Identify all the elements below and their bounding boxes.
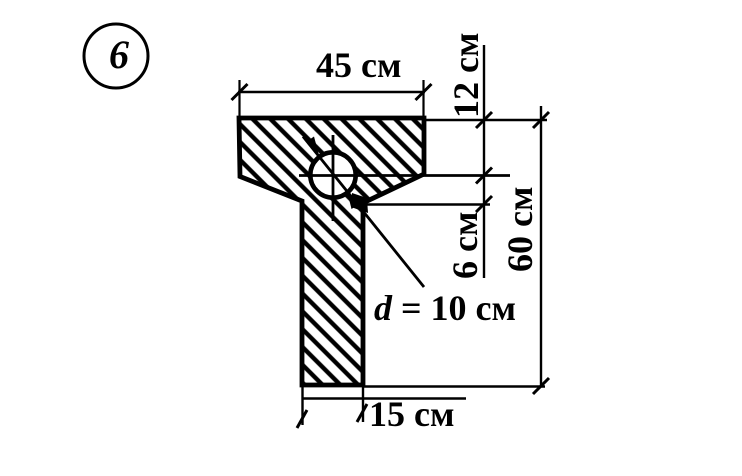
extension line junction level (363, 203, 490, 205)
hole circle d=10 (310, 152, 355, 197)
circle horizontal centerline / extension to dimension lines (299, 174, 510, 177)
outer vertical dimension line (60 cm) (500, 106, 549, 394)
svg-text:45 см: 45 см (316, 45, 402, 85)
dimension line (238, 91, 425, 93)
svg-text:60 см: 60 см (500, 187, 540, 273)
leader arrowhead lower-right (347, 191, 359, 209)
tick right (416, 84, 432, 100)
svg-text:d = 10 см: d = 10 см (374, 288, 516, 328)
svg-text:15 см: 15 см (369, 394, 455, 434)
inner vertical dimension line (12 cm / 6 cm) (445, 33, 492, 280)
svg-text:6 см: 6 см (445, 212, 485, 280)
extension line flange top right (424, 119, 547, 121)
diameter leader line (303, 137, 424, 288)
svg-text:12 см: 12 см (446, 33, 486, 119)
extension line stem bottom to right (363, 385, 545, 388)
T-section body with hatching and hole (239, 118, 424, 385)
tick left (232, 84, 248, 100)
problem number circle 6 (84, 24, 148, 88)
top dimension 45 cm (232, 45, 432, 120)
leader arrowhead upper-left (306, 137, 320, 158)
dimension line (303, 397, 466, 399)
left extension line (301, 385, 303, 425)
left extension line (238, 80, 240, 117)
junction blob (351, 193, 368, 213)
bottom dimension 15 cm (297, 385, 466, 434)
circle vertical centerline (332, 135, 335, 221)
tick left (297, 410, 307, 428)
right extension line (362, 385, 364, 422)
svg-text:6: 6 (109, 32, 129, 77)
tick right (357, 404, 367, 422)
right extension line (422, 80, 424, 120)
